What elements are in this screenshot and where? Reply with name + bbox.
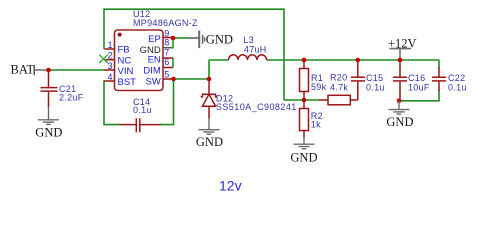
junction SW/C14 [171, 77, 176, 82]
wire SW riser [208, 60, 210, 79]
pin 3 VIN [105, 69, 115, 71]
svg-text:NC: NC [118, 55, 132, 66]
svg-text:MP9486AGN-Z: MP9486AGN-Z [133, 18, 198, 28]
svg-text:EN: EN [148, 55, 161, 66]
svg-text:7: 7 [164, 47, 169, 57]
svg-text:1k: 1k [311, 119, 321, 129]
pin 2 NC [105, 59, 115, 61]
svg-text:1: 1 [107, 40, 112, 50]
svg-text:2.2uF: 2.2uF [59, 93, 84, 103]
capacitor C21 [41, 70, 58, 108]
svg-text:3: 3 [107, 61, 112, 71]
capacitor C15 [351, 60, 365, 100]
pin 8 GND [163, 47, 170, 49]
svg-text:DIM: DIM [143, 66, 161, 77]
wire BST to C14 [104, 81, 120, 125]
svg-text:0.1u: 0.1u [133, 105, 152, 115]
svg-text:SW: SW [145, 77, 160, 88]
svg-text:SS510A_C908241: SS510A_C908241 [216, 102, 297, 112]
junction rail/+12V/C16 [398, 58, 403, 63]
pin 4 BST [105, 80, 115, 82]
capacitor C14 [120, 118, 161, 132]
wire BAT to VIN [49, 69, 106, 71]
junction FB node [302, 98, 307, 103]
junction rail/R1 [302, 58, 307, 63]
inductor L3 [229, 55, 267, 60]
resistor R2 [303, 100, 305, 109]
junction BAT/C21 [46, 68, 51, 73]
svg-text:59k: 59k [311, 82, 327, 92]
svg-text:GND: GND [206, 32, 233, 46]
junction rail/C15 [356, 58, 361, 63]
svg-text:GND: GND [386, 115, 413, 129]
port GND top right (bar style) [189, 37, 199, 39]
ground under D12 [199, 118, 220, 134]
svg-text:5: 5 [164, 70, 169, 80]
svg-text:0.1u: 0.1u [448, 83, 467, 93]
wire EN-DIM tie [172, 58, 174, 68]
svg-text:12v: 12v [219, 178, 242, 194]
wire output rail [209, 59, 229, 61]
junction SW/D12 [207, 77, 212, 82]
svg-text:FB: FB [118, 45, 130, 56]
IC U12 MP9486AGN-Z body [115, 30, 164, 91]
wire SW line [170, 78, 209, 80]
svg-text:GND: GND [290, 150, 317, 164]
svg-text:BST: BST [118, 77, 137, 88]
pin 5 SW [163, 78, 171, 80]
svg-text:47uH: 47uH [244, 45, 267, 55]
svg-text:6: 6 [164, 57, 169, 67]
svg-text:GND: GND [196, 135, 223, 149]
ground under C16 [389, 101, 410, 114]
resistor R1 [303, 60, 305, 69]
svg-text:BAT: BAT [11, 62, 35, 76]
ground under R2 [294, 137, 315, 149]
ground under C21 [38, 107, 59, 124]
svg-text:10uF: 10uF [408, 83, 430, 93]
svg-text:VIN: VIN [118, 66, 134, 77]
resistor R20 [319, 99, 328, 101]
pin 1 FB [105, 48, 115, 50]
junction C16/GND/C22 return [397, 99, 402, 104]
pin 7 EN [163, 57, 173, 59]
svg-text:0.1u: 0.1u [366, 83, 385, 93]
pin 6 DIM [163, 67, 173, 69]
junction EP/GND [171, 36, 176, 41]
wire pin8 to EP junction [170, 38, 173, 48]
svg-text:2: 2 [107, 51, 112, 61]
svg-text:C16: C16 [408, 73, 425, 83]
svg-text:4.7k: 4.7k [330, 82, 348, 92]
wire C14 to SW [160, 79, 174, 125]
capacitor C22 [432, 67, 446, 91]
svg-text:EP: EP [148, 34, 161, 45]
pin 9 EP [163, 37, 173, 39]
svg-text:8: 8 [164, 38, 169, 48]
wire FB node line [284, 99, 319, 101]
svg-text:4: 4 [107, 72, 112, 82]
capacitor C16 [393, 60, 407, 101]
no-connect X on pin 2 [99, 55, 108, 63]
wire C22 branch [438, 60, 440, 68]
svg-text:GND: GND [35, 125, 62, 139]
diode D12 (schottky) [201, 79, 218, 119]
svg-text:C15: C15 [366, 73, 383, 83]
wire top rail FB net [104, 9, 284, 100]
pin1 marker dot [118, 33, 122, 37]
svg-text:C22: C22 [448, 73, 465, 83]
wire EP to GND [173, 37, 189, 39]
svg-text:R20: R20 [330, 73, 347, 83]
